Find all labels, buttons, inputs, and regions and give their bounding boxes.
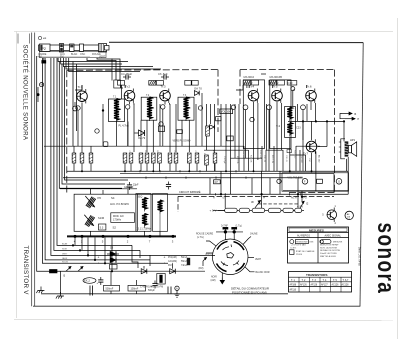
schematic outer border top: [109, 41, 363, 43]
circle test 12: [159, 122, 163, 126]
osc coil 2: [142, 214, 147, 228]
transistor Tr.6: [306, 89, 317, 103]
commutator radial leads: [203, 237, 255, 278]
third coil box: [153, 194, 168, 232]
coil collar 2: [70, 44, 75, 52]
stage label texts: [121, 72, 293, 85]
stage vertical wires upper band: [75, 59, 202, 153]
svg-text:R14 1k: R14 1k: [212, 151, 214, 157]
circle G: [336, 179, 342, 185]
commutator top stubs: [216, 227, 243, 240]
antenna terminal texts: [38, 53, 106, 59]
test point M circle: [40, 83, 44, 87]
junction dot left: [37, 93, 40, 96]
svg-text:R2 56k: R2 56k: [71, 153, 73, 161]
FM pin left: [203, 258, 207, 262]
TRANSISTORS table: [289, 272, 352, 293]
svg-text:R24 680: R24 680: [300, 155, 302, 163]
diode OA79: [194, 86, 202, 95]
svg-text:SUIV. LA SORTIE: SUIV. LA SORTIE: [320, 246, 338, 249]
commutator labels: [196, 225, 270, 281]
svg-text:172kHz: 172kHz: [113, 219, 122, 222]
commutator caption: [231, 286, 269, 295]
plus marks: [98, 256, 166, 266]
chassis line bottom: [41, 293, 288, 295]
cap box 500mF: [97, 271, 120, 294]
diode D3 mid: [210, 125, 215, 129]
svg-text:BLANC NOIR: BLANC NOIR: [256, 271, 270, 274]
current notes text: [140, 256, 188, 292]
wire color labels: [62, 243, 68, 264]
IF transformer T1: [109, 99, 125, 123]
svg-text:NOIR: NOIR: [62, 249, 68, 251]
ratio detector transformer T4: [276, 107, 295, 138]
svg-text:AG.H: AG.H: [291, 196, 297, 199]
svg-text:R13 4.7k: R13 4.7k: [203, 153, 205, 163]
transistor Tr.5: [272, 89, 283, 103]
svg-text:50mA: 50mA: [181, 256, 188, 259]
svg-text:AF126: AF126: [300, 283, 307, 286]
more value labels: [128, 151, 310, 165]
cap box 100mF: [128, 280, 158, 294]
svg-text:S1/M: S1/M: [98, 216, 104, 220]
svg-text:C6 .5µF: C6 .5µF: [158, 72, 168, 76]
svg-text:SOCIÉTÉ NOUVELLE SONORA: SOCIÉTÉ NOUVELLE SONORA: [22, 45, 29, 141]
svg-text:AF186: AF186: [290, 283, 297, 286]
transistor Tr.1: [77, 89, 88, 103]
transistor Tr.3: [160, 89, 171, 103]
resistor row left group: [72, 146, 93, 171]
speaker HP1: [348, 138, 356, 156]
mid vertical wires detector area: [207, 104, 306, 171]
ground on chassis left: [36, 287, 44, 294]
svg-text:+: +: [164, 256, 166, 260]
svg-text:= 9V: = 9V: [297, 205, 303, 209]
third coil: [158, 200, 163, 214]
svg-text:ROUG: ROUG: [62, 262, 68, 264]
svg-text:VERS PL.SONO: VERS PL.SONO: [173, 140, 191, 143]
box level: [159, 126, 165, 132]
+9V arrows I6: [340, 112, 355, 120]
bottom area long wire components: [50, 270, 61, 294]
switch lever I2: [300, 201, 304, 208]
commutator detail circle: [212, 239, 248, 275]
coil P2 on rod: [40, 44, 51, 52]
bus line A: [67, 170, 348, 172]
svg-text:Tr.7: Tr.7: [303, 152, 308, 156]
svg-text:R33 5.6k: R33 5.6k: [259, 150, 261, 160]
small component box R1: [114, 80, 121, 88]
svg-text:TENSIONS CONT.: TENSIONS CONT.: [296, 241, 314, 243]
capsule feed drops: [225, 194, 298, 208]
svg-text:+ 9 V: + 9 V: [210, 209, 217, 213]
module B dashed outline: [240, 70, 334, 193]
detector diode D1: [135, 130, 145, 136]
svg-text:+: +: [164, 262, 166, 266]
box R70: [216, 117, 221, 121]
box MOD GO: [111, 213, 135, 223]
bus line B: [120, 173, 334, 175]
antenna terminal label box: [40, 51, 107, 57]
legend transistor symbol circle: [322, 205, 336, 225]
gang pin numbers: [74, 240, 174, 244]
svg-text:VOL 10k: VOL 10k: [221, 111, 231, 114]
diode D4: [110, 257, 116, 263]
MESURES table: [288, 227, 349, 263]
schematic outer border bottom: [33, 305, 360, 307]
bus line C: [63, 177, 302, 179]
svg-text:POSITIONNÉ EN PO (AM): POSITIONNÉ EN PO (AM): [232, 290, 267, 295]
svg-text:sonora: sonora: [372, 223, 400, 295]
tuning block box: [74, 194, 137, 231]
svg-text:55mA: 55mA: [181, 260, 188, 263]
box R4: [103, 142, 108, 147]
right cell symbol: [320, 240, 331, 244]
svg-text:AC126: AC126: [332, 283, 340, 286]
electrolytic C45: [157, 274, 165, 285]
svg-text:C12 .04: C12 .04: [150, 153, 152, 161]
dark cap DB: [187, 258, 190, 265]
svg-text:VERT: VERT: [99, 56, 106, 59]
svg-text:C10: C10: [288, 81, 293, 85]
svg-text:C23: C23: [296, 127, 301, 130]
svg-text:FM: FM: [168, 264, 171, 267]
svg-text:AM: AM: [38, 56, 42, 59]
svg-text:R16 10k: R16 10k: [236, 156, 238, 163]
svg-text:R7 15k: R7 15k: [144, 151, 146, 157]
svg-text:500µF: 500µF: [148, 289, 155, 292]
IF box labels: [113, 94, 187, 99]
box S3: [99, 224, 106, 230]
svg-text:MOD. GO: MOD. GO: [113, 215, 124, 218]
wires top right stages: [236, 74, 315, 171]
svg-text:C14 .04: C14 .04: [173, 151, 175, 159]
svg-text:Tr.2: Tr.2: [125, 85, 130, 89]
svg-text:BLEU: BLEU: [206, 255, 212, 257]
left wire bundle descending: [37, 56, 215, 271]
svg-text:AU REPOS: AU REPOS: [297, 235, 310, 238]
svg-text:S.3: S.3: [100, 226, 104, 229]
IF transformer T3: [178, 97, 194, 121]
svg-text:+9 VOLTS TAG: +9 VOLTS TAG: [291, 244, 306, 247]
svg-text:R45 150: R45 150: [294, 150, 296, 159]
svg-text:T. 5: T. 5: [333, 279, 338, 282]
svg-text:(1.Tg): (1.Tg): [236, 225, 242, 227]
box R47: [287, 150, 292, 153]
svg-text:T. 4: T. 4: [323, 279, 328, 282]
svg-text:HP1: HP1: [350, 138, 356, 142]
box D7: [214, 180, 221, 184]
test point circles under transistors: [73, 105, 306, 122]
cascade wires from antenna to right: [58, 58, 161, 147]
svg-text:AC128: AC128: [342, 283, 350, 286]
svg-text:Tr.3: Tr.3: [161, 85, 166, 89]
stage box S4: [243, 80, 264, 149]
svg-text:2xTNF: 2xTNF: [221, 225, 228, 227]
extension wire bottom: [112, 270, 205, 272]
svg-text:VERT: VERT: [62, 254, 68, 256]
svg-text:R3 10k: R3 10k: [79, 153, 81, 161]
svg-text:CIRCUIT IMPRIMÉ: CIRCUIT IMPRIMÉ: [179, 191, 201, 194]
wire GM: [60, 188, 137, 190]
svg-text:T. 6,7: T. 6,7: [343, 279, 350, 282]
resistor hatched mid: [206, 126, 210, 136]
svg-text:R6 56k: R6 56k: [138, 153, 140, 161]
svg-text:PL 4.7kΩ: PL 4.7kΩ: [119, 125, 129, 128]
svg-text:GM 2.2F: GM 2.2F: [124, 186, 134, 189]
diode D6 bottom: [170, 269, 176, 274]
svg-text:22pF: 22pF: [133, 184, 139, 187]
svg-text:OSC: OSC: [80, 53, 85, 56]
gang drop wires: [75, 189, 160, 271]
drop wires to bottom diodes: [132, 245, 173, 268]
svg-text:NIVEAU DE SORTIE: NIVEAU DE SORTIE: [320, 249, 341, 252]
transistor Tr.4: [248, 89, 259, 103]
svg-text:ACC. P.O.515kHz: ACC. P.O.515kHz: [110, 203, 130, 206]
box C23b: [317, 179, 323, 183]
svg-text:EX.2: EX.2: [84, 279, 90, 283]
svg-text:100mF: 100mF: [131, 288, 139, 291]
svg-text:AF126: AF126: [311, 283, 318, 286]
svg-text:ROUGE CADRE: ROUGE CADRE: [196, 233, 214, 236]
svg-text:T. 1: T. 1: [291, 279, 296, 282]
tiny mark B est: [38, 36, 41, 39]
box D2: [177, 130, 183, 134]
switch lever I3: [255, 201, 261, 208]
schematic outer border right: [360, 43, 363, 307]
svg-text:C26 .04: C26 .04: [263, 155, 265, 163]
svg-text:TRANSISTOR V: TRANSISTOR V: [22, 246, 29, 296]
circle F: [302, 179, 308, 185]
ferrite antenna rod CADRE: [39, 44, 110, 53]
svg-text:VERT: VERT: [255, 259, 262, 261]
cap C16 22pF: [127, 182, 132, 190]
small circles mid: [76, 105, 236, 133]
svg-text:AC 132: AC 132: [318, 155, 321, 163]
resistor row center group: [123, 153, 217, 171]
oscillator box: [136, 194, 151, 232]
svg-text:Dess. J.G. 04-65: Dess. J.G. 04-65: [357, 247, 360, 266]
wire from M circle down: [77, 110, 79, 146]
junction dot T1 top: [102, 109, 104, 111]
svg-text:Tr.6: Tr.6: [307, 85, 312, 89]
svg-text:A: A: [176, 286, 178, 290]
svg-text:MA 9016B: MA 9016B: [270, 75, 283, 79]
svg-text:C30 .01: C30 .01: [285, 155, 287, 163]
svg-text:(L.TG): (L.TG): [197, 237, 204, 239]
svg-text:74mA: 74mA: [181, 264, 188, 267]
net labels on bus E: [213, 195, 307, 200]
cap C17: [166, 182, 171, 190]
EX2 oval label: [83, 278, 96, 284]
diode D5 bottom: [141, 269, 147, 274]
svg-text:OA 70: OA 70: [194, 86, 202, 90]
svg-text:I = 8%: I = 8%: [290, 247, 296, 249]
svg-text:P2: P2: [42, 47, 46, 51]
transistor Tr.7: [306, 139, 317, 153]
gang junction dots: [74, 235, 175, 238]
box under D4: [110, 265, 118, 270]
feedback section box: [282, 173, 349, 191]
commutator ground: [220, 278, 226, 285]
svg-text:13.1 1.72MHz: 13.1 1.72MHz: [137, 229, 152, 231]
svg-text:+: +: [98, 262, 100, 266]
potentiometer P6: [85, 196, 95, 208]
capacitor C6: [161, 74, 169, 79]
coil collar 1: [60, 44, 64, 53]
top row bias component boxes: [118, 80, 297, 85]
text underline: [37, 56, 90, 58]
transistor Tr.2: [124, 89, 135, 103]
svg-text:NOIR: NOIR: [211, 277, 217, 279]
osc coil 1: [142, 198, 147, 212]
svg-text:C4 .05µF: C4 .05µF: [121, 72, 132, 76]
stage box S5: [270, 80, 291, 149]
circle D: [277, 179, 281, 183]
output stage wires: [288, 121, 348, 190]
svg-text:BLAN: BLAN: [71, 53, 78, 56]
hash marks chassis: [90, 286, 171, 296]
module A dashed outline: [67, 70, 218, 194]
svg-text:C15 .02: C15 .02: [194, 151, 196, 159]
svg-text:Tr.4: Tr.4: [249, 85, 254, 89]
svg-text:AF127: AF127: [321, 283, 328, 286]
svg-text:PO: PO: [304, 197, 308, 199]
bus line D: [283, 190, 348, 192]
potentiometer S1: [84, 215, 94, 227]
coil collar 3: [80, 44, 84, 52]
svg-text:+: +: [98, 256, 100, 260]
svg-text:(AM): (AM): [211, 279, 216, 282]
svg-text:R31 10k: R31 10k: [242, 150, 244, 159]
svg-text:C18 5µF: C18 5µF: [223, 156, 225, 164]
svg-text:MESURES: MESURES: [309, 228, 324, 232]
circle A test: [175, 286, 179, 290]
svg-text:MA 9010: MA 9010: [244, 75, 255, 79]
cascade junction dots: [72, 244, 113, 272]
svg-text:R21 1.5k: R21 1.5k: [271, 155, 273, 163]
ground bottom left: [56, 292, 64, 299]
svg-text:est: est: [43, 37, 47, 40]
svg-text:S4: S4: [111, 196, 115, 200]
svg-text:T4: T4: [347, 218, 349, 220]
svg-text:C9 .04: C9 .04: [88, 153, 90, 160]
legend transistor case circle: [345, 211, 353, 220]
drops to switch bus: [210, 171, 348, 201]
svg-text:(FM): (FM): [199, 268, 204, 270]
svg-text:Tr.5: Tr.5: [273, 85, 278, 89]
svg-text:R5 2k: R5 2k: [122, 153, 124, 160]
svg-text:T. 3: T. 3: [312, 279, 317, 282]
junction dots output: [302, 120, 345, 122]
switch capsule row: [213, 208, 302, 212]
switch dashed link: [258, 203, 299, 205]
svg-text:PO(AM): PO(AM): [168, 256, 177, 259]
svg-text:50mW LECTURE: 50mW LECTURE: [320, 253, 337, 255]
svg-text:ÉTAT DE CHARGE: ÉTAT DE CHARGE: [296, 250, 315, 253]
svg-text:R9 2.7k: R9 2.7k: [167, 153, 169, 161]
bus line E: [137, 193, 348, 195]
test point circle below C10: [291, 87, 295, 91]
ground under A: [174, 291, 179, 298]
svg-text:AVEC SIGNAL: AVEC SIGNAL: [325, 235, 342, 238]
capacitor C4: [123, 74, 131, 79]
svg-text:P6: P6: [98, 196, 102, 200]
svg-text:BLAN: BLAN: [62, 243, 68, 246]
svg-text:MESURE: MESURE: [333, 241, 343, 243]
svg-text:INJECTION HF/MF: INJECTION HF/MF: [320, 245, 339, 247]
svg-text:C11 .04: C11 .04: [128, 151, 130, 159]
svg-text:R8 3.3k: R8 3.3k: [156, 151, 158, 158]
svg-text:JAUN: JAUN: [62, 257, 68, 260]
box C19: [227, 136, 233, 141]
tuning gang heavy bar: [67, 235, 176, 237]
svg-text:T. 2: T. 2: [302, 279, 307, 282]
svg-text:500mF: 500mF: [106, 288, 114, 291]
svg-text:OA.79: OA.79: [138, 137, 146, 140]
rod end cap: [99, 44, 107, 53]
svg-text:JAUNE: JAUNE: [250, 233, 258, 236]
bus tick marks: [140, 170, 301, 196]
svg-text:WATTM. A 600Ω: WATTM. A 600Ω: [320, 255, 336, 258]
diode D3 bottom: [107, 251, 119, 257]
horizontal link lines mid band: [44, 146, 320, 158]
svg-text:PILES: PILES: [296, 254, 303, 256]
left margin double rule: [32, 33, 35, 307]
IF transformer T2: [141, 97, 157, 121]
svg-text:R18 22k: R18 22k: [250, 155, 252, 162]
bus junction dots: [81, 170, 313, 198]
svg-text:G: G: [338, 179, 340, 183]
switch arrows I3: [66, 267, 83, 272]
tiny value labels row: [71, 150, 296, 163]
svg-text:GO(AM): GO(AM): [168, 260, 177, 263]
svg-text:TRANSISTORS: TRANSISTORS: [306, 273, 327, 277]
svg-text:S2: S2: [113, 226, 117, 230]
svg-text:AF116: AF116: [290, 289, 297, 292]
svg-text:VOL.P10 500k: VOL.P10 500k: [288, 177, 304, 180]
ground blob below P2: [42, 58, 46, 63]
svg-text:R11 1k: R11 1k: [186, 153, 188, 161]
svg-text:3F: 3F: [251, 200, 254, 204]
volume box P10: [220, 109, 233, 114]
output transformer T5: [339, 139, 349, 159]
meter symbol: [290, 240, 294, 244]
wire stubs upper right: [298, 104, 308, 121]
PCB dashed outline: [178, 196, 334, 212]
svg-text:BSQ: BSQ: [137, 196, 142, 199]
page tick marks top left: [18, 34, 30, 44]
